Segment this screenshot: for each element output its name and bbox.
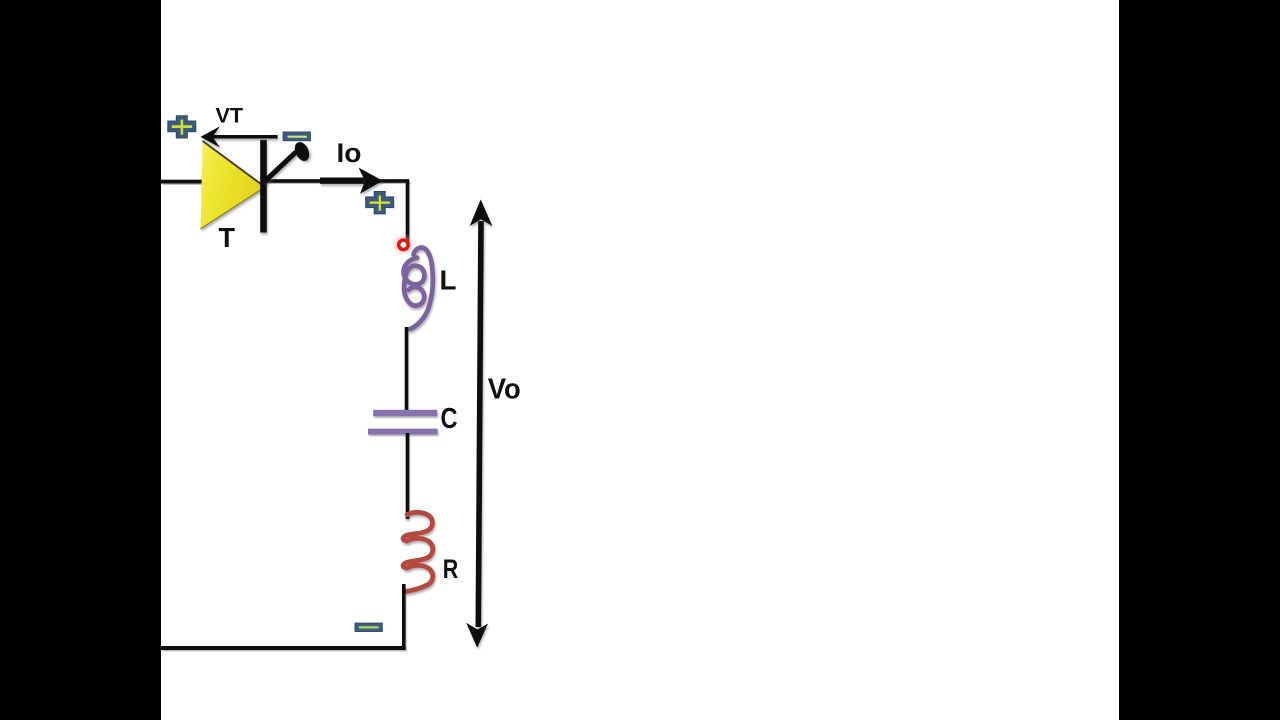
- wire: inductor to capacitor: [405, 327, 409, 411]
- plus symbol anode: [168, 116, 196, 138]
- capacitor C bottom plate: [368, 429, 438, 435]
- wire: capacitor to resistor: [406, 433, 410, 519]
- wire: left anode wire: [161, 180, 206, 184]
- wire: vertical drop to node: [406, 180, 410, 242]
- svg-text:C: C: [441, 403, 458, 435]
- wire: bottom return wire: [161, 646, 406, 650]
- thyristor gate dot: [292, 140, 312, 164]
- resistor R coil: [403, 512, 433, 591]
- Io arrow: [320, 168, 383, 194]
- minus symbol bottom: [355, 623, 383, 632]
- white content background: [161, 0, 1119, 720]
- svg-text:VT: VT: [216, 103, 244, 127]
- VT arrow: [201, 126, 278, 147]
- wire: cathode to output corner: [265, 179, 409, 183]
- thyristor cathode bar: [260, 140, 267, 233]
- minus symbol cathode: [283, 132, 311, 141]
- capacitor C top plate: [373, 410, 437, 416]
- thyristor T triangle: [201, 141, 265, 229]
- svg-text:Io: Io: [337, 138, 362, 168]
- svg-text:Vo: Vo: [488, 373, 521, 405]
- thyristor gate wire: [264, 152, 296, 182]
- svg-text:R: R: [443, 554, 459, 584]
- svg-text:T: T: [219, 222, 236, 253]
- wire: resistor to bottom corner: [402, 584, 406, 648]
- Vo arrow double-headed: [466, 200, 492, 648]
- svg-text:L: L: [440, 264, 457, 295]
- inductor L coil: [404, 248, 433, 329]
- plus symbol output: [366, 192, 394, 214]
- node: red dot: [391, 233, 415, 257]
